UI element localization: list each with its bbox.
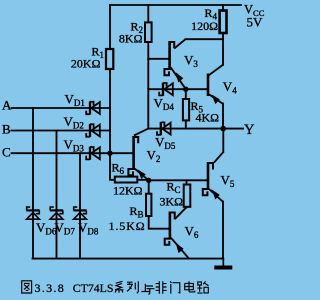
svg-text:20KΩ: 20KΩ <box>71 57 101 71</box>
resistor RB <box>146 194 151 216</box>
wire Rc column <box>186 180 188 207</box>
hanzi yu <box>141 284 154 295</box>
wire RB column to V6 base <box>149 180 170 228</box>
resistor R5 <box>183 99 189 120</box>
caption figure title <box>22 281 32 293</box>
resistor R6 <box>115 177 138 183</box>
wire R2 column <box>147 5 149 129</box>
wire input C line to V2 base <box>12 152 134 154</box>
resistor RC <box>184 185 191 207</box>
diode VD7 <box>50 207 63 219</box>
wire V3 base <box>148 58 168 60</box>
wire R1 column <box>109 5 111 153</box>
wire B branch to VD7 <box>56 131 58 259</box>
diode VD8 <box>73 207 86 219</box>
svg-text:CT74LS: CT74LS <box>73 281 114 295</box>
svg-text:Y: Y <box>244 122 255 138</box>
node V2 emitter junction <box>146 178 151 183</box>
wire input B line <box>12 130 111 132</box>
hanzi men <box>170 281 180 293</box>
svg-text:1.5KΩ: 1.5KΩ <box>109 219 146 233</box>
wire V3 collector to R4 <box>186 38 224 40</box>
resistor R2 <box>145 22 152 42</box>
wire Vcc top rail <box>110 4 241 6</box>
diode VD6 <box>26 207 39 219</box>
node Y junction <box>220 126 226 132</box>
transistor V5 <box>203 152 224 202</box>
hanzi dian <box>185 281 195 292</box>
ground <box>214 259 232 268</box>
diode VD1 <box>86 101 100 114</box>
svg-text:8KΩ: 8KΩ <box>119 32 143 46</box>
wire A branch to VD6 <box>32 108 34 259</box>
node V2 base junction <box>107 151 112 156</box>
svg-text:3KΩ: 3KΩ <box>160 195 184 209</box>
svg-text:B: B <box>2 122 11 137</box>
hanzi xi <box>115 281 124 293</box>
diode VD4 <box>159 83 173 96</box>
hanzi lie <box>127 281 138 293</box>
hanzi fei <box>156 281 167 293</box>
wire node Y down to V5 collector <box>222 129 224 152</box>
svg-text:12KΩ: 12KΩ <box>113 184 143 198</box>
resistor R1 <box>106 49 113 69</box>
wire R5 column <box>185 89 187 128</box>
svg-text:5V: 5V <box>247 15 264 30</box>
transistor V2 <box>128 129 148 181</box>
wire VD4 line to V4 base <box>148 88 207 90</box>
hanzi tu (figure) <box>22 281 32 293</box>
resistor R4 <box>220 11 227 34</box>
transistor V6 <box>165 207 189 258</box>
hanzi lu <box>197 281 208 293</box>
diode VD3 <box>86 147 100 160</box>
wire input A line <box>12 107 111 109</box>
transistor V4 <box>208 65 223 104</box>
diode VD5 <box>157 122 171 135</box>
svg-text:4KΩ: 4KΩ <box>196 111 220 125</box>
svg-text:A: A <box>2 98 12 113</box>
wire VD5 output line Y <box>148 128 243 130</box>
wire base rail to V5 <box>149 179 208 181</box>
wire C branch to VD8 <box>79 153 81 258</box>
wire V4 emitter to node Y <box>222 104 224 129</box>
wire R4 column <box>222 5 224 65</box>
svg-text:C: C <box>2 145 11 160</box>
svg-text:3.3.8: 3.3.8 <box>35 281 66 295</box>
transistor V3 <box>164 39 185 89</box>
diode VD2 <box>86 124 100 137</box>
svg-text:120Ω: 120Ω <box>191 19 218 33</box>
wire ground rail <box>33 258 224 260</box>
wire R6 row <box>110 153 149 180</box>
wire V5 emitter to ground <box>222 202 224 259</box>
node V4 base junction <box>183 87 188 92</box>
